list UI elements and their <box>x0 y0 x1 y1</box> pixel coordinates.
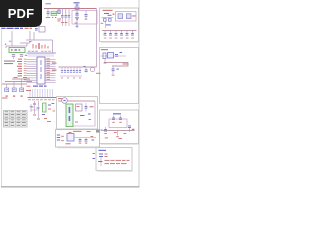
sheet border left <box>1 27 3 187</box>
box relay section <box>56 97 100 131</box>
svg-text:PDF: PDF <box>8 6 35 21</box>
IC U1 top bus <box>27 51 57 57</box>
rectifier outline <box>72 11 97 25</box>
sheet border bottom <box>1 186 140 188</box>
box comparator section <box>100 110 140 144</box>
diode D2 chain <box>75 4 79 29</box>
box regulator section <box>100 8 140 42</box>
capacitor C4 <box>68 9 71 27</box>
regulator U2 <box>101 52 127 64</box>
caps row rail <box>59 66 97 68</box>
connector J3 <box>57 135 64 142</box>
IC U1 bottom bus <box>28 89 57 100</box>
pin table <box>4 111 28 128</box>
box output section <box>96 148 133 172</box>
IC U1 right pins <box>45 58 57 82</box>
resistor R7 <box>66 136 95 144</box>
PDF badge <box>0 0 42 27</box>
capacitor C6 <box>12 54 15 59</box>
decoupling caps row <box>60 67 82 78</box>
diode D3 <box>128 126 134 133</box>
motor M1 <box>62 98 68 104</box>
capacitor C5 <box>85 11 88 21</box>
wire box1 rail <box>102 30 137 32</box>
wire mcu top <box>5 31 53 53</box>
capacitor bank box1 <box>104 31 134 39</box>
transformer T1 <box>116 12 137 22</box>
label PSU title <box>103 10 113 11</box>
relay K1 <box>66 104 73 127</box>
label MCU title <box>2 28 33 29</box>
polarized cap C9 <box>90 67 100 74</box>
capacitor C16 <box>85 138 88 144</box>
transistor Q4 <box>5 84 9 97</box>
transistor Q1 <box>101 13 115 28</box>
op-amp U4 <box>67 132 74 141</box>
wire box6 rail <box>74 137 96 139</box>
note text <box>4 61 15 65</box>
node arrows left of box3 <box>95 121 98 138</box>
IC U1 left pins <box>24 59 37 83</box>
node VIN label <box>74 2 80 3</box>
capacitor C13 <box>101 127 107 134</box>
node marks left of box4 <box>93 153 96 159</box>
capacitor C12 <box>119 116 122 123</box>
transistor Q6 <box>20 79 24 97</box>
label reset <box>29 41 49 49</box>
IC U1 body <box>37 57 45 84</box>
sheet border right <box>138 0 140 187</box>
LED D1 <box>51 11 57 18</box>
crystal Y1 <box>35 27 45 33</box>
capacitor C1 <box>46 3 52 18</box>
capacitor C2 <box>61 9 64 27</box>
transistor Q5 <box>12 82 16 97</box>
transistor Q3 <box>75 104 82 123</box>
capacitor C7 <box>20 54 28 57</box>
wire box5 rail <box>58 100 95 102</box>
resistor R1 <box>57 9 61 22</box>
wire box2 steps <box>104 63 128 67</box>
label box2 title <box>101 49 108 50</box>
wire box5 right drop <box>73 101 95 126</box>
label box3 title <box>113 113 121 114</box>
op-amp U3 <box>109 119 127 128</box>
label pin names left <box>17 59 22 77</box>
capacitor C11 <box>112 116 115 123</box>
capacitor C15 <box>79 138 82 144</box>
capacitor C14 <box>80 103 94 120</box>
wire box3 rail <box>103 130 135 132</box>
box driver section <box>56 130 101 148</box>
capacitor C3 <box>64 9 67 27</box>
label output notes <box>105 160 130 164</box>
resistor R5 <box>105 131 126 140</box>
connector J1 <box>9 48 25 53</box>
wire right drop <box>96 9 98 68</box>
label U1 partno <box>27 86 47 87</box>
label box4 title <box>99 150 107 151</box>
capacitor C8 polarized <box>84 66 88 72</box>
label box6 title <box>73 131 91 132</box>
crystal circuit <box>30 101 55 122</box>
connector J2 <box>98 154 108 167</box>
label rail names <box>2 90 31 99</box>
box 5V section <box>100 48 139 104</box>
power rails left <box>2 77 32 84</box>
wire top power rail <box>44 8 97 10</box>
capacitor C10 <box>112 66 119 76</box>
label box5 title <box>58 98 63 99</box>
